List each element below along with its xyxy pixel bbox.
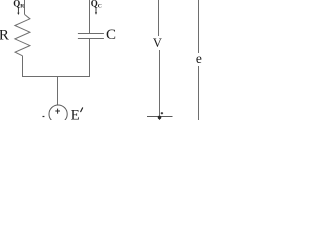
- capacitor C (two plates): [78, 34, 104, 39]
- battery plate (long) at bottom of V line: [147, 116, 173, 118]
- wire: e line upper segment: [198, 0, 200, 53]
- source E' (circle, clipped at bottom): [49, 105, 67, 123]
- wire: V line lower segment: [159, 50, 161, 120]
- plus sign at battery terminal: [161, 112, 163, 114]
- wire: e line lower segment: [198, 66, 200, 120]
- wire: bottom horizontal bus joining R and C branches: [22, 76, 90, 78]
- svg-text:C: C: [106, 27, 116, 43]
- svg-text:R: R: [0, 27, 9, 43]
- junction dot on battery: [158, 116, 162, 120]
- minus sign left of source: [43, 116, 45, 118]
- wire: V line upper segment: [158, 0, 160, 36]
- wire: top lead of capacitor branch: [89, 0, 91, 34]
- wire: stub from bus down to source: [57, 77, 59, 106]
- wire: bottom lead of resistor branch: [22, 56, 24, 77]
- svg-text:e: e: [196, 51, 202, 66]
- svg-text:QR: QR: [13, 0, 25, 10]
- svg-text:E: E: [71, 107, 80, 120]
- arrow: current direction through C (down): [95, 8, 97, 15]
- prime mark of E: [81, 108, 83, 112]
- resistor R (zigzag): [15, 14, 30, 55]
- plus sign inside source: [55, 109, 60, 114]
- svg-text:V: V: [153, 36, 162, 50]
- arrow: current direction through R (down): [17, 7, 19, 15]
- wire: top lead of resistor branch: [24, 0, 26, 14]
- wire: bottom lead of capacitor branch: [89, 39, 91, 77]
